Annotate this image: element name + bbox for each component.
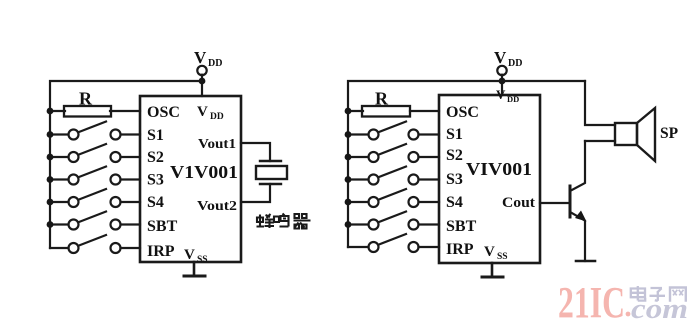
node VDD (left) terminal label bbox=[194, 48, 222, 69]
svg-text:S4: S4 bbox=[147, 194, 164, 211]
label buzzer 蜂鸣器 bbox=[257, 214, 311, 229]
svg-text:V: V bbox=[496, 87, 506, 102]
svg-text:DD: DD bbox=[208, 58, 222, 69]
svg-text:V: V bbox=[484, 244, 495, 260]
junction bus/S2 bbox=[47, 154, 54, 161]
junction bus/S4 (right) bbox=[345, 199, 352, 206]
switch IRP (left) bbox=[50, 235, 140, 253]
resistor R (left) bbox=[64, 106, 111, 117]
svg-text:S3: S3 bbox=[147, 172, 164, 189]
svg-text:S2: S2 bbox=[147, 149, 164, 166]
buzzer B1 body bbox=[256, 166, 287, 179]
wire Cout to transistor base bbox=[540, 202, 569, 204]
op-amp U1 IC box V1V001 bbox=[140, 96, 241, 262]
svg-text:S1: S1 bbox=[147, 127, 164, 144]
resistor R (right) bbox=[362, 106, 410, 117]
buzzer B1 (piezo) top plate bbox=[260, 160, 281, 162]
label R (right) bbox=[375, 89, 389, 109]
鸣 bbox=[274, 217, 279, 223]
svg-text:OSC: OSC bbox=[446, 104, 479, 121]
switch S1 (left) bbox=[50, 122, 140, 140]
svg-text:V: V bbox=[494, 48, 507, 67]
junction bus/S3 (right) bbox=[345, 176, 352, 183]
wire Vout1 to buzzer bbox=[241, 143, 270, 161]
transistor Q1 collector bbox=[570, 141, 585, 191]
switch SBT (right) bbox=[348, 212, 439, 230]
svg-text:Vout2: Vout2 bbox=[197, 199, 237, 214]
器 bbox=[294, 214, 311, 229]
svg-text:R: R bbox=[375, 89, 389, 109]
网 bbox=[670, 288, 686, 302]
ground (left IC VSS) bbox=[184, 262, 205, 276]
junction VDD/top rail (left) bbox=[199, 78, 206, 85]
op-amp U2 IC box VIV001 bbox=[439, 95, 540, 263]
speaker SP cone bbox=[637, 108, 655, 161]
junction bus/SBT bbox=[47, 221, 54, 228]
svg-text:S3: S3 bbox=[446, 171, 463, 188]
logo com bbox=[631, 294, 688, 325]
电 bbox=[631, 286, 645, 301]
svg-text:com: com bbox=[631, 294, 688, 325]
logo 21IC bbox=[558, 278, 630, 327]
wire bus to R bbox=[50, 110, 65, 112]
wire buzzer to Vout2 bbox=[241, 184, 270, 202]
svg-text:V1V001: V1V001 bbox=[170, 162, 238, 182]
svg-text:Vout1: Vout1 bbox=[198, 137, 236, 152]
junction bus/S2 (right) bbox=[345, 154, 352, 161]
switch S4 (left) bbox=[50, 189, 140, 207]
svg-text:DD: DD bbox=[507, 94, 519, 104]
junction bus/S1 (right) bbox=[345, 131, 352, 138]
node VDD (right) terminal circle bbox=[497, 66, 506, 75]
junction bus/S3 bbox=[47, 176, 54, 183]
子 bbox=[650, 288, 666, 301]
U1 pin labels bbox=[147, 104, 238, 265]
wire R to OSC pin (right) bbox=[410, 110, 439, 112]
ground (right IC VSS) bbox=[482, 263, 503, 277]
junction bus/SBT (right) bbox=[345, 221, 352, 228]
switch SBT (left) bbox=[50, 212, 140, 230]
wire speaker to collector bbox=[585, 140, 615, 142]
transistor Q1 base bar bbox=[569, 186, 572, 217]
switch S1 (right) bbox=[348, 122, 439, 140]
svg-text:SBT: SBT bbox=[446, 218, 477, 235]
speaker SP body bbox=[615, 123, 637, 145]
transistor Q1 emitter with arrow bbox=[570, 211, 587, 262]
svg-text:SS: SS bbox=[497, 252, 508, 262]
switch IRP (right) bbox=[348, 234, 439, 252]
蜂 bbox=[257, 215, 265, 227]
junction VDD/top rail (right) bbox=[499, 78, 506, 85]
svg-text:IRP: IRP bbox=[147, 243, 175, 260]
svg-text:SP: SP bbox=[660, 125, 679, 142]
buzzer B1 bottom plate bbox=[260, 183, 281, 185]
svg-text:R: R bbox=[79, 89, 93, 109]
svg-text:V: V bbox=[184, 247, 195, 263]
svg-text:21IC: 21IC bbox=[558, 278, 625, 327]
wire top rail (left circuit) bbox=[50, 81, 202, 248]
U2 pin labels bbox=[446, 87, 535, 262]
svg-text:DD: DD bbox=[508, 58, 522, 69]
svg-text:V: V bbox=[194, 48, 207, 67]
ground (emitter) bbox=[576, 260, 595, 263]
wire bus to R (right) bbox=[348, 110, 363, 112]
junction bus/R (right) bbox=[345, 108, 352, 115]
switch S2 (right) bbox=[348, 144, 439, 162]
svg-text:DD: DD bbox=[210, 112, 224, 122]
wire VDD terminal down to IC bbox=[501, 75, 503, 95]
switch S3 (right) bbox=[348, 167, 439, 185]
svg-text:Cout: Cout bbox=[502, 195, 535, 211]
svg-text:OSC: OSC bbox=[147, 104, 180, 121]
svg-text:SS: SS bbox=[197, 255, 208, 265]
junction bus/S1 bbox=[47, 131, 54, 138]
logo 电子网 bbox=[631, 286, 686, 302]
svg-text:S1: S1 bbox=[446, 126, 463, 143]
node VDD (right) terminal label bbox=[494, 48, 522, 69]
svg-text:S2: S2 bbox=[446, 147, 463, 164]
wire VDD terminal to top rail bbox=[201, 75, 203, 96]
wire top rail (right circuit) bbox=[348, 81, 585, 247]
switch S3 (left) bbox=[50, 167, 140, 185]
label SP bbox=[660, 125, 679, 142]
switch S2 (left) bbox=[50, 144, 140, 162]
svg-text:V: V bbox=[197, 104, 208, 120]
svg-text:IRP: IRP bbox=[446, 241, 474, 258]
node VDD (left) terminal circle bbox=[197, 66, 206, 75]
label R (left) bbox=[79, 89, 93, 109]
svg-text:S4: S4 bbox=[446, 194, 463, 211]
junction bus/R (left) bbox=[47, 108, 54, 115]
wire top rail down to speaker bbox=[585, 81, 615, 125]
wire R to OSC pin bbox=[110, 110, 140, 112]
svg-text:SBT: SBT bbox=[147, 218, 178, 235]
switch S4 (right) bbox=[348, 189, 439, 207]
svg-text:VIV001: VIV001 bbox=[466, 159, 532, 179]
junction bus/S4 bbox=[47, 199, 54, 206]
